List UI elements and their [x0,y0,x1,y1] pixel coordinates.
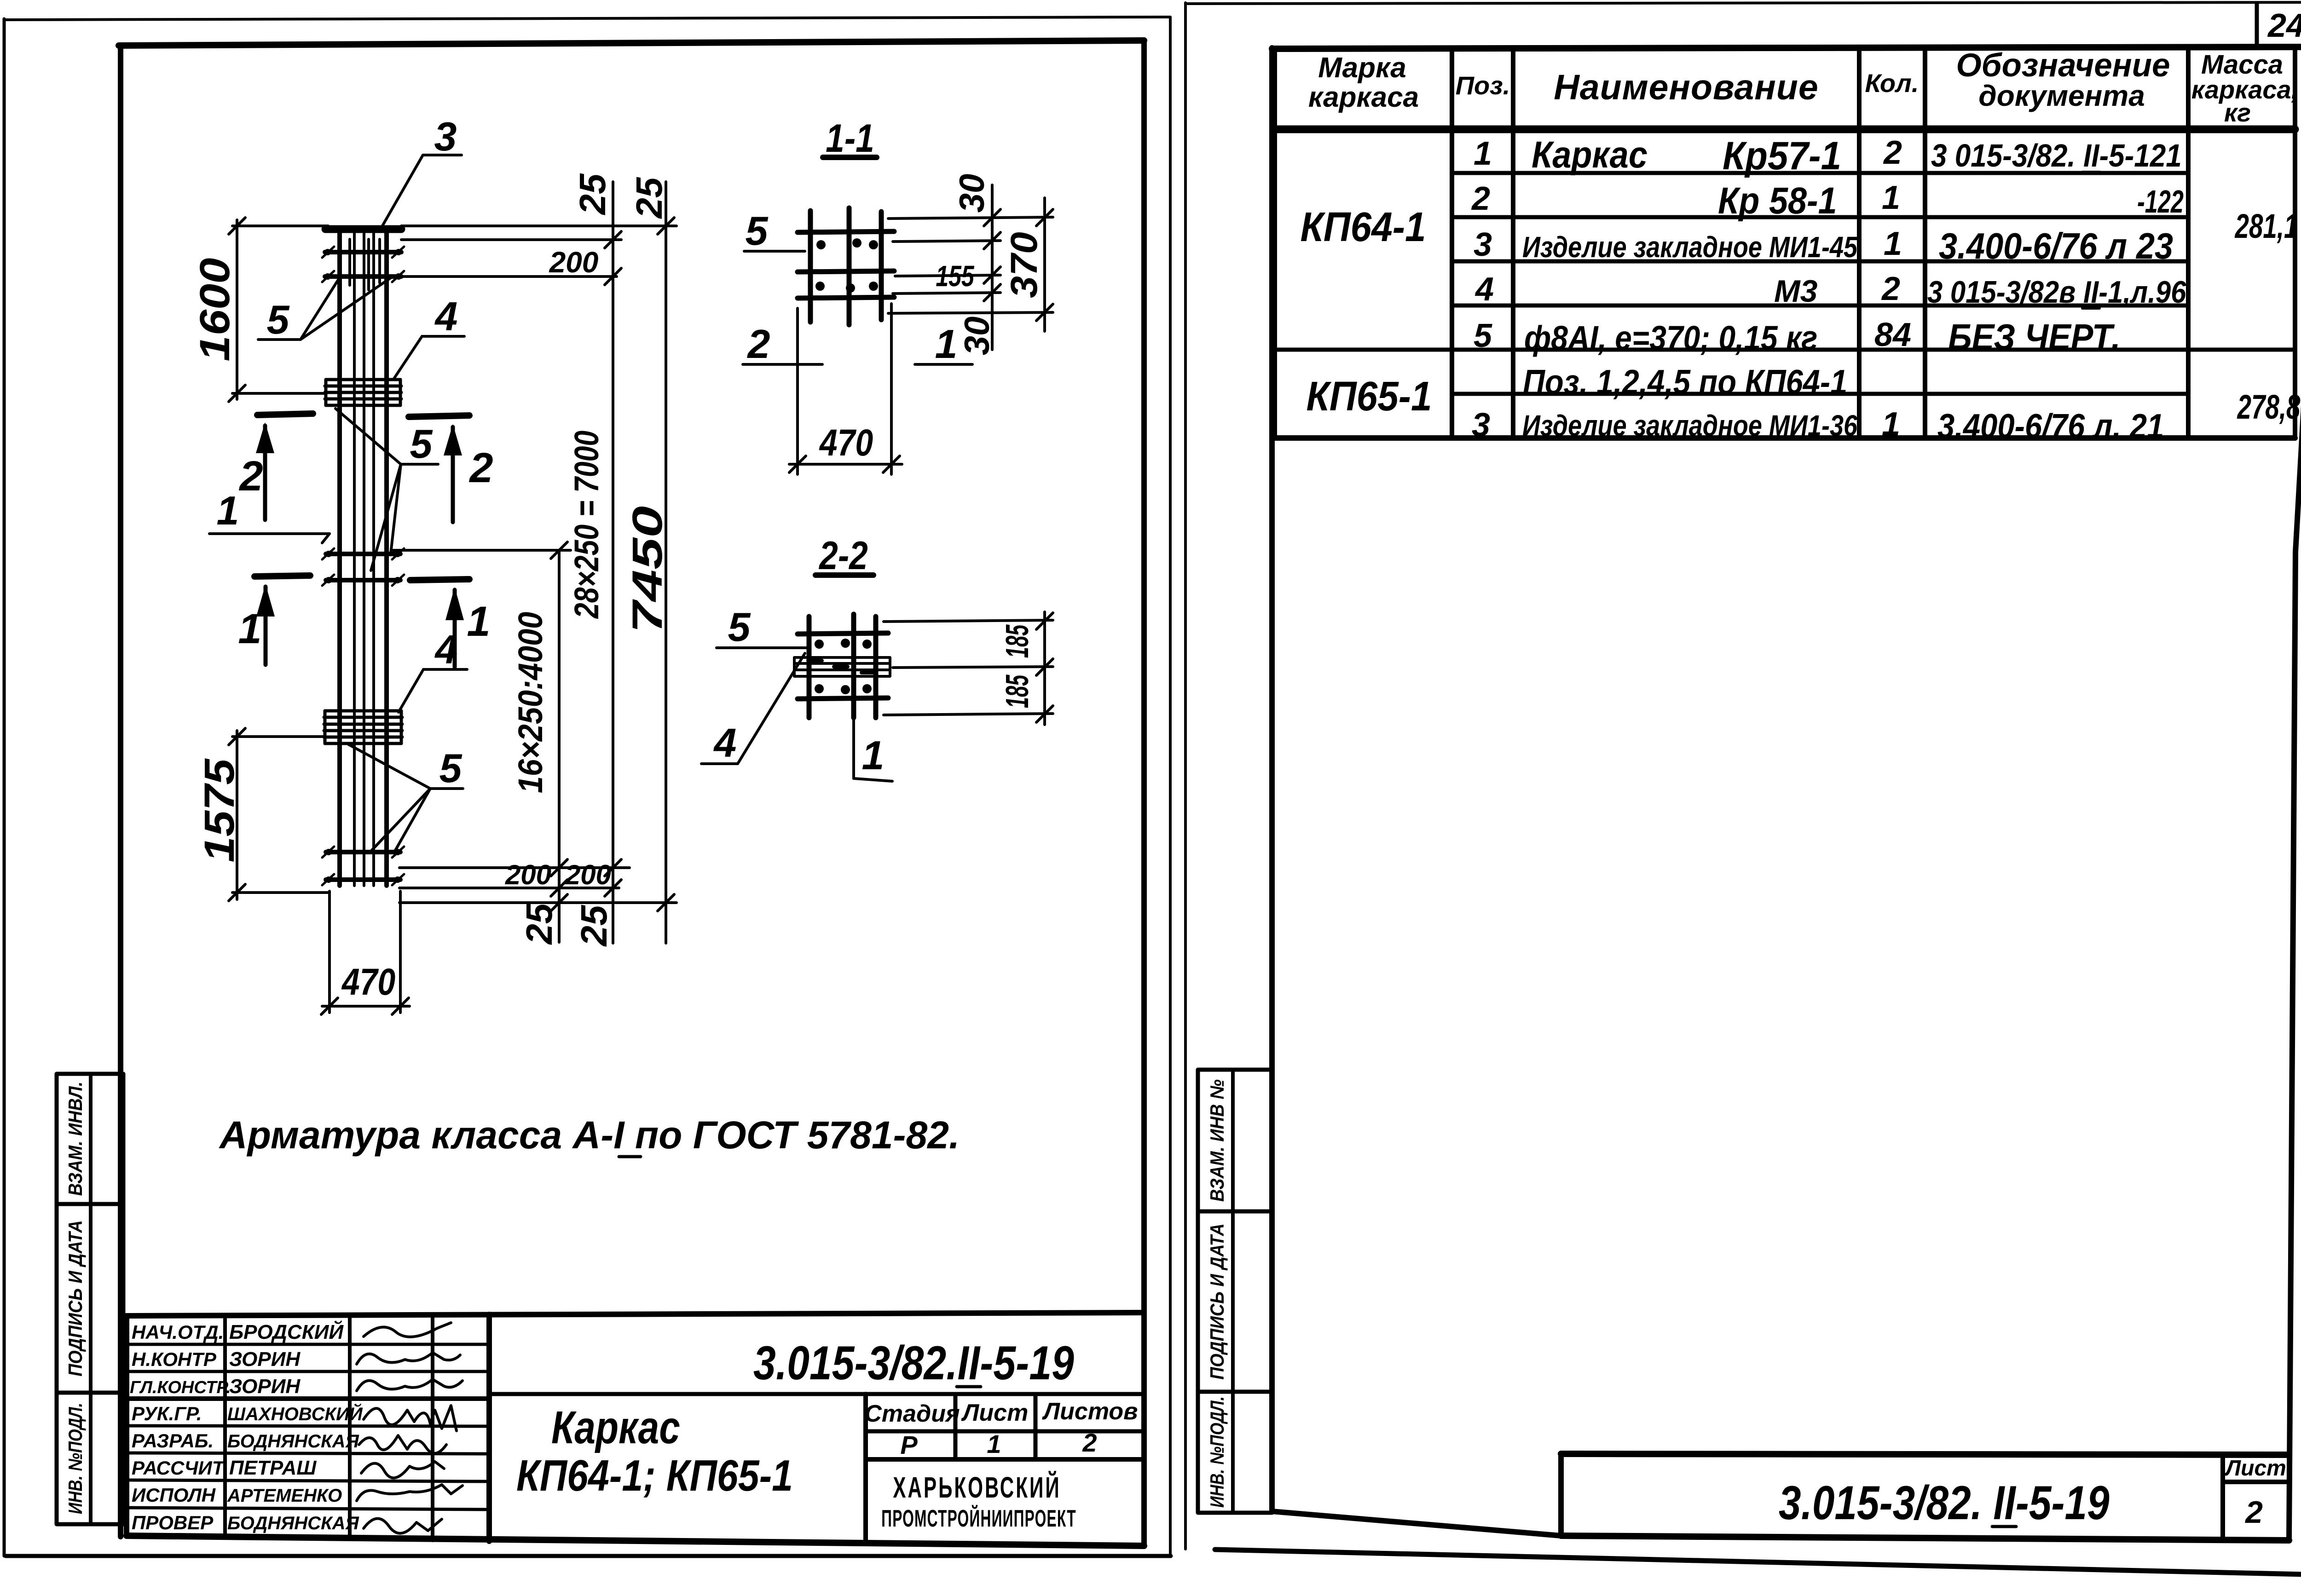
svg-text:3: 3 [1472,407,1490,444]
table outer and column lines [1275,48,2295,438]
right strip rotated labels [1207,1079,1228,1508]
document number (left sheet) [753,1337,1074,1390]
section 2-2 leader 4 [701,653,805,764]
svg-text:каркаса: каркаса [1308,81,1419,113]
svg-text:БОДНЯНСКАЯ: БОДНЯНСКАЯ [227,1431,359,1452]
svg-text:1600: 1600 [191,258,238,361]
upper mesh coil (item 4) [325,380,401,405]
svg-text:30: 30 [958,317,997,356]
section 1-1 right extension lines [888,217,1053,313]
svg-text:1: 1 [1884,225,1902,262]
svg-text:2: 2 [468,444,493,491]
section 1-1 leader 5 [744,250,805,253]
svg-text:200: 200 [565,859,611,890]
svg-text:1: 1 [217,488,239,533]
stadia/list/listov [864,1398,1138,1459]
dimension 1600 (left) [229,218,328,402]
svg-text:Кол.: Кол. [1865,69,1919,98]
svg-text:155: 155 [936,260,974,293]
svg-text:БОДНЯНСКАЯ: БОДНЯНСКАЯ [227,1513,359,1533]
left strip rotated labels [65,1082,87,1514]
svg-text:Кр 58-1: Кр 58-1 [1718,179,1837,222]
svg-text:3 015-3/82в II-1,л.96: 3 015-3/82в II-1,л.96 [1927,274,2186,309]
svg-text:2: 2 [1883,134,1902,171]
svg-text:4: 4 [434,627,458,672]
leader label 3 (plate) [381,155,462,228]
section 2-2 dim line 185/185 [1036,612,1053,725]
svg-text:470: 470 [341,961,395,1003]
section 2-2 title [815,533,873,577]
svg-text:ИНВ. №ПОДЛ.: ИНВ. №ПОДЛ. [1207,1396,1228,1508]
svg-text:16×250:4000: 16×250:4000 [511,612,549,793]
svg-text:30: 30 [953,174,992,213]
svg-text:470: 470 [819,422,873,464]
left sheet margin strip boxes (Inv.No / Podpis / Vzam) [57,1074,123,1524]
svg-text:Изделие закладное МИ1-45: Изделие закладное МИ1-45 [1522,230,1858,264]
section 1-1 dim line 370 [1036,198,1053,331]
left sheet drawing frame [119,40,1144,1544]
section 1-1 dimension 470 [789,456,902,472]
svg-text:-122: -122 [2137,184,2184,219]
svg-text:281,1: 281,1 [2234,207,2298,245]
table oboznachenie column [1927,138,2186,446]
svg-text:ЗОРИН: ЗОРИН [229,1348,301,1371]
section mark 2-2 arrows [256,414,469,522]
title: KARKAS KP64-1; KP65-1 [516,1402,793,1500]
svg-text:РАЗРАБ.: РАЗРАБ. [132,1430,214,1452]
svg-text:РАССЧИТ: РАССЧИТ [132,1457,225,1479]
leader label 4 (lower coil) [399,669,467,712]
right sheet paper edge [1185,2,2301,1576]
svg-text:ВЗАМ. ИНВЛ.: ВЗАМ. ИНВЛ. [65,1082,86,1196]
svg-text:200: 200 [505,859,551,890]
main longitudinal bars [340,233,387,886]
svg-text:АРТЕМЕНКО: АРТЕМЕНКО [227,1486,342,1506]
title block names [227,1320,363,1533]
svg-text:1: 1 [1882,406,1900,443]
svg-text:Листов: Листов [1041,1398,1138,1425]
svg-text:Кр57-1: Кр57-1 [1723,133,1841,178]
svg-text:Марка: Марка [1318,52,1406,84]
svg-text:Обозначение: Обозначение [1956,47,2170,84]
svg-text:кг: кг [2224,98,2251,127]
table massa column [2234,207,2301,426]
svg-text:КП64-1: КП64-1 [1300,204,1426,250]
svg-text:1: 1 [1474,135,1492,172]
svg-text:28×250 = 7000: 28×250 = 7000 [568,431,606,619]
section 2-2 bar dots [815,639,872,694]
svg-text:3.400-6/76 л. 21: 3.400-6/76 л. 21 [1937,408,2164,446]
svg-text:185: 185 [999,624,1035,658]
svg-text:Лист: Лист [2224,1456,2286,1481]
title block row labels [130,1321,231,1533]
svg-text:278,8: 278,8 [2237,388,2301,426]
svg-text:ПРОМСТРОЙНИИПРОЕКТ: ПРОМСТРОЙНИИПРОЕКТ [881,1505,1076,1532]
section 2-2 leader 1 [854,699,892,781]
title block outer + internal lines [127,1313,1144,1546]
svg-text:ШАХНОВСКИЙ: ШАХНОВСКИЙ [227,1403,363,1424]
svg-text:ВЗАМ. ИНВ №: ВЗАМ. ИНВ № [1207,1079,1228,1202]
svg-text:ПЕТРАШ: ПЕТРАШ [229,1457,317,1479]
leader label 5 (middle) [335,409,438,570]
svg-text:25: 25 [572,173,613,215]
svg-text:Арматура класса А-I по: Арматура класса А-I по ГОСТ 5781-82. [219,1113,960,1157]
section 2-2 right extension lines [884,620,1053,715]
section 1-1 dim line 30/155/30 [984,185,1000,350]
svg-text:1: 1 [935,321,958,367]
svg-text:Н.КОНТР: Н.КОНТР [132,1348,217,1370]
svg-text:2: 2 [238,453,263,500]
lower mesh coil (item 4) [324,711,402,743]
bottom 470 dimension [321,891,410,1014]
bottom stirrups (item 5) [325,849,401,883]
svg-text:2: 2 [1471,180,1490,217]
svg-text:5: 5 [439,745,463,791]
svg-text:ИНВ. №ПОДЛ.: ИНВ. №ПОДЛ. [65,1403,87,1514]
page number 24 box [2257,4,2301,46]
table naimenovanie column [1522,133,1858,442]
middle stirrups (item 5) [325,551,401,583]
svg-text:4: 4 [713,720,737,766]
svg-text:1: 1 [1882,179,1900,216]
bar stubs above stirrups near plate [350,239,380,290]
note text: Armatura klassa A-I po GOST 5781-82 [219,1113,960,1157]
top plate (item 3 embedded plate) [325,225,401,233]
svg-text:2: 2 [2244,1495,2263,1530]
stirrup end hooks [322,247,404,885]
right sheet margin strip boxes [1198,1070,1272,1513]
svg-text:1: 1 [467,598,490,645]
table pos column [1471,135,1494,444]
organization name [881,1471,1076,1532]
table headers [1308,47,2298,127]
svg-text:3.015-3/82. II-5-19: 3.015-3/82. II-5-19 [1779,1476,2110,1530]
svg-text:200: 200 [549,246,599,279]
svg-text:185: 185 [999,674,1035,709]
svg-text:25: 25 [573,905,614,947]
svg-text:3: 3 [434,114,457,159]
svg-text:3.400-6/76 л 23: 3.400-6/76 л 23 [1939,226,2173,267]
right sheet bottom title block [1561,1454,2289,1540]
dimension line 16x250:4000 [551,542,567,942]
dimension line 7450 [658,182,674,943]
section 1-1 bar dots [815,238,878,293]
svg-text:Р: Р [900,1430,918,1459]
svg-text:КП64-1; КП65-1: КП64-1; КП65-1 [516,1451,793,1500]
svg-text:4: 4 [434,294,458,339]
right sheet drawing frame [1272,47,2301,1539]
svg-text:РУК.ГР.: РУК.ГР. [132,1403,202,1424]
svg-text:Каркас: Каркас [551,1402,680,1453]
svg-text:2-2: 2-2 [818,533,867,577]
dimension line 28x250=7000 [605,182,621,943]
svg-text:1575: 1575 [196,758,243,862]
svg-text:Каркас: Каркас [1532,133,1648,176]
svg-text:ГЛ.КОНСТР.: ГЛ.КОНСТР. [130,1378,231,1397]
svg-text:Изделие закладное МИ1-36: Изделие закладное МИ1-36 [1522,409,1858,442]
svg-text:ПОДПИСЬ И ДАТА: ПОДПИСЬ И ДАТА [1207,1223,1228,1380]
section 1-1 title [823,116,877,160]
leader label 5 (bottom) [348,744,463,851]
section 1-1 stirrup grid [798,208,894,325]
leader label 5 (top stirrups) [258,278,391,340]
svg-text:НАЧ.ОТД.: НАЧ.ОТД. [132,1321,224,1343]
svg-text:документа: документа [1978,79,2145,112]
svg-text:4: 4 [1474,271,1494,308]
svg-text:Наименование: Наименование [1554,68,1818,107]
svg-text:5: 5 [267,297,290,342]
svg-text:7450: 7450 [624,506,671,633]
right side dimension extension lines [393,226,676,903]
leader label 4 (upper coil) [394,336,464,379]
svg-text:5: 5 [1474,317,1492,354]
svg-text:25: 25 [629,177,670,219]
svg-text:1-1: 1-1 [826,116,874,160]
table row lines [1275,173,2295,394]
svg-text:84: 84 [1874,317,1911,353]
svg-text:5: 5 [746,208,769,254]
svg-text:Поз. 1,2,4,5 по КП64-1: Поз. 1,2,4,5 по КП64-1 [1523,363,1847,401]
svg-text:БЕЗ ЧЕРТ.: БЕЗ ЧЕРТ. [1948,317,2121,358]
svg-text:3: 3 [1474,226,1492,263]
svg-text:Стадия: Стадия [864,1400,960,1427]
svg-text:1: 1 [238,605,261,652]
table marka cells [1300,204,1432,419]
dimension 1575 (left) [229,728,330,901]
svg-text:КП65-1: КП65-1 [1306,373,1432,419]
section 2-2 mesh band (item 4) [794,657,890,676]
svg-text:25: 25 [519,903,560,945]
svg-text:2: 2 [1881,271,1900,307]
svg-text:1: 1 [987,1429,1001,1458]
svg-text:БРОДСКИЙ: БРОДСКИЙ [229,1320,344,1343]
section 1-1 witness lines and labels 2 / 1 [743,304,972,474]
svg-text:ПОДПИСЬ И ДАТА: ПОДПИСЬ И ДАТА [65,1220,86,1377]
left sheet paper edge [4,17,1171,1556]
section 2-2 stirrup grid [798,614,888,718]
svg-text:370: 370 [1003,232,1045,298]
svg-text:1: 1 [862,732,885,778]
svg-text:5: 5 [728,604,751,650]
svg-text:ХАРЬКОВСКИЙ: ХАРЬКОВСКИЙ [893,1471,1061,1504]
svg-text:М3: М3 [1774,274,1818,309]
svg-text:ПРОВЕР: ПРОВЕР [132,1512,214,1533]
section mark 1-1 arrows [254,576,469,667]
svg-text:Поз.: Поз. [1456,71,1510,100]
svg-text:ф8АI, e=370; 0,15 кг: ф8АI, e=370; 0,15 кг [1524,319,1817,357]
svg-text:ИСПОЛН: ИСПОЛН [132,1484,216,1506]
stirrup ties top group (item 5) [324,249,402,280]
svg-text:5: 5 [410,421,433,467]
svg-text:3.015-3/82.II-5-19: 3.015-3/82.II-5-19 [753,1337,1074,1390]
section 2-2 leader 5 [717,646,806,649]
table kol column [1874,134,1911,443]
svg-text:Лист: Лист [961,1400,1029,1426]
leader label 1 (main bars) [209,534,330,543]
svg-text:ЗОРИН: ЗОРИН [229,1375,301,1398]
svg-text:3 015-3/82. II-5-121: 3 015-3/82. II-5-121 [1931,138,2182,174]
svg-text:2: 2 [1082,1428,1097,1457]
svg-text:24: 24 [2267,7,2301,44]
svg-text:2: 2 [747,321,770,367]
signatures [357,1323,463,1533]
